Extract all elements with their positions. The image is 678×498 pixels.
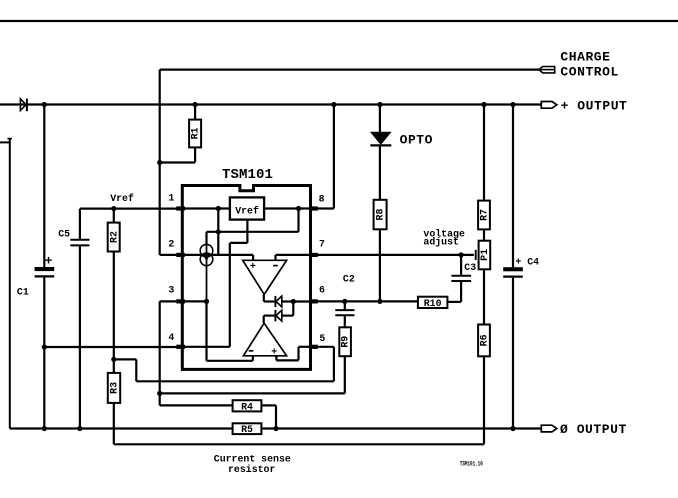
- junction: pin 3 node: [204, 299, 209, 304]
- pin 7 stub: [309, 253, 318, 257]
- wire: op-amp1 + input stub: [252, 255, 254, 260]
- wire: pin 5 long link: [136, 380, 334, 382]
- junction: rail / R1: [193, 102, 198, 107]
- svg-text:R6: R6: [479, 334, 490, 346]
- wire: + input rail: [0, 103, 542, 105]
- wire: op-amp2 output lead: [263, 316, 265, 324]
- capacitor C3: [451, 276, 471, 281]
- wire: current source top lead: [205, 232, 207, 245]
- svg-text:CONTROL: CONTROL: [560, 64, 618, 79]
- Vref box U1: [230, 197, 264, 219]
- junction: 0V / C1: [42, 426, 47, 431]
- svg-text:Vref: Vref: [235, 206, 259, 217]
- svg-text:R3: R3: [109, 382, 120, 394]
- wire: diode D3 riser: [292, 302, 294, 316]
- svg-text:resistor: resistor: [228, 464, 275, 475]
- junction: rail / opto branch: [377, 102, 382, 107]
- pin 3 stub: [176, 299, 185, 303]
- capacitor C2: [335, 310, 354, 315]
- resistor R6: [478, 325, 490, 357]
- wire: R2-R3 link: [113, 252, 115, 373]
- wire: R9 bottom lead: [344, 356, 346, 393]
- svg-text:Vref: Vref: [110, 193, 134, 204]
- wire: C4 bottom lead: [512, 278, 514, 429]
- wire: pin 5 lead: [317, 346, 334, 348]
- svg-text:R4: R4: [241, 401, 253, 412]
- wire: R8 bottom lead: [379, 229, 381, 301]
- junction: pin 3 riser / R9 return: [157, 391, 162, 396]
- junction: pin8 net branch: [296, 206, 301, 211]
- svg-text:C5: C5: [58, 228, 70, 239]
- wire: C3 top lead: [460, 255, 462, 275]
- resistor R7: [478, 201, 490, 230]
- wire: bias link row: [207, 231, 299, 233]
- wire: R1 top lead: [194, 104, 196, 120]
- wire: op-amp1 - input elbow up: [274, 255, 276, 260]
- wire: R9 return line: [160, 392, 345, 394]
- svg-text:2: 2: [168, 238, 174, 249]
- svg-text:3: 3: [168, 285, 174, 296]
- capacitor C1 (electrolytic): [35, 267, 55, 276]
- wire: Vref net: [80, 208, 182, 210]
- svg-text:TSM101: TSM101: [222, 167, 273, 183]
- svg-text:R8: R8: [375, 209, 386, 221]
- wire: pin 8 riser to rail: [333, 105, 335, 209]
- wire: R4 drop to 0V: [275, 405, 277, 428]
- op-amp U1B (current loop): [243, 323, 286, 357]
- wire: pin 4 inner: [182, 346, 230, 348]
- wire: opto top lead: [379, 105, 381, 133]
- wire: pin 3 riser: [159, 301, 161, 405]
- wire: pin1-pin2 riser: [217, 209, 219, 255]
- connector: 0 OUTPUT spade: [541, 425, 557, 432]
- resistor R1: [189, 120, 201, 148]
- wire: opto to R8: [379, 145, 381, 199]
- wire: CHARGE CONTROL line: [160, 68, 540, 70]
- svg-text:1: 1: [168, 193, 174, 204]
- resistor R3: [108, 373, 120, 403]
- svg-text:R2: R2: [108, 231, 119, 243]
- wire: R1 bottom link: [160, 161, 195, 163]
- wire: left return stub from transformer: [0, 139, 12, 429]
- wire: pin 4 sense line: [44, 346, 176, 348]
- svg-text:+: +: [45, 254, 53, 269]
- junction: rail / C1 branch: [42, 102, 47, 107]
- wire: op-amp2 - input stub: [252, 356, 254, 361]
- junction: rail / R7: [481, 102, 486, 107]
- wire: kelvin sense return: [114, 443, 484, 445]
- wire: pin 7 voltage-adjust line: [317, 254, 474, 256]
- wire: current source to op-amp2: [205, 301, 207, 360]
- wire: R3 bottom lead: [113, 403, 115, 444]
- wire: sense tap link: [114, 358, 137, 360]
- wire: Vref bottom lead: [246, 220, 248, 243]
- wire: pin 2 lead: [160, 254, 177, 256]
- svg-text:C2: C2: [343, 273, 355, 284]
- junction: R4 / 0V rail: [273, 426, 278, 431]
- wire: pin 1 inner: [182, 207, 230, 209]
- resistor R5 (current sense): [233, 423, 262, 435]
- svg-text:8: 8: [319, 193, 325, 204]
- pin 5 stub: [309, 345, 318, 349]
- wire: R7 top lead: [483, 105, 485, 201]
- wire: C4 top lead: [512, 105, 514, 268]
- junction: rail / pin8 riser: [331, 102, 336, 107]
- junction: pin1 net branch: [216, 206, 221, 211]
- op-amp IC TSM101 outline with notch: [182, 186, 310, 370]
- junction: pin7 / C3: [459, 252, 464, 257]
- wire: C3 bottom lead: [460, 282, 462, 302]
- pin 1 stub: [176, 206, 185, 210]
- pin 4 stub: [176, 345, 185, 349]
- LED OPTO (optocoupler diode): [370, 132, 391, 145]
- current source symbol: [200, 244, 213, 301]
- wire: pin 5 drop: [333, 347, 335, 382]
- wire: P1 to R6: [483, 269, 485, 324]
- top border rule: [0, 20, 678, 22]
- svg-text:+ C4: + C4: [515, 256, 539, 267]
- wire: C5 bottom lead: [79, 246, 81, 428]
- svg-text:R1: R1: [190, 128, 201, 140]
- svg-text:adjust: adjust: [423, 236, 459, 247]
- wire: pin 3 lead: [160, 300, 177, 302]
- junction: 0V / C5: [77, 426, 82, 431]
- wire: pin 8 inner: [264, 207, 317, 209]
- junction: R2-R3 / pin5 sense tap: [111, 357, 116, 362]
- junction: pin6 / C2: [342, 299, 347, 304]
- wire: C1 top lead: [43, 105, 45, 268]
- svg-text:C1: C1: [17, 287, 29, 298]
- wire: diode D2 anode link: [282, 300, 311, 302]
- svg-text:+: +: [271, 346, 277, 357]
- wire: R4 left lead: [160, 404, 233, 406]
- svg-text:6: 6: [319, 285, 325, 296]
- wire: R7 to P1: [483, 229, 485, 240]
- wire: pin 3 inner: [182, 300, 206, 302]
- connector: CHARGE CONTROL tab: [539, 67, 555, 73]
- wire: C3 to R10: [447, 301, 461, 303]
- capacitor C5: [70, 240, 89, 246]
- connector: + OUTPUT spade: [541, 102, 557, 109]
- wire: Vref lead elbow: [230, 242, 248, 244]
- wire: R6 bottom lead: [483, 356, 485, 444]
- wire: C2 top lead: [344, 301, 346, 309]
- wire: op-amp2 out to diode: [264, 315, 276, 317]
- wire: pin 8 lead: [317, 207, 334, 209]
- wire: pin5 inner riser: [297, 347, 299, 361]
- diode D1 (input rectifier): [20, 99, 27, 112]
- wire: diode D3 anode link: [282, 315, 294, 317]
- wire: 0V rail right: [261, 427, 541, 429]
- wire: Vref lead to pin4 row: [229, 243, 231, 347]
- resistor R4: [233, 400, 262, 412]
- capacitor C4 (electrolytic): [503, 267, 523, 276]
- svg-text:R7: R7: [479, 209, 490, 221]
- wire: R4 right lead: [261, 404, 276, 406]
- wire: pin 7 inner: [276, 254, 318, 256]
- svg-text:+ OUTPUT: + OUTPUT: [561, 98, 628, 113]
- wire: pin 5 inner: [299, 346, 311, 348]
- wire: pin8 inner riser: [297, 209, 299, 232]
- wire: R1 bottom lead: [194, 147, 196, 162]
- pin 6 stub: [309, 299, 318, 303]
- wire: op-amp1 out to diode: [264, 300, 276, 302]
- svg-text:CHARGE: CHARGE: [560, 49, 610, 64]
- svg-text:OPTO: OPTO: [400, 132, 433, 147]
- svg-text:R10: R10: [424, 298, 442, 309]
- potentiometer P1: [476, 241, 491, 270]
- wire: op-amp1 output lead: [263, 294, 265, 301]
- resistor R2: [108, 223, 120, 252]
- svg-text:7: 7: [319, 238, 325, 249]
- svg-text:5: 5: [319, 333, 325, 344]
- wire: sense tap drop: [135, 359, 137, 381]
- svg-text:P1: P1: [479, 249, 490, 261]
- svg-text:+: +: [250, 261, 256, 272]
- wire: R2 top lead: [113, 209, 115, 223]
- svg-text:Ø OUTPUT: Ø OUTPUT: [560, 422, 627, 437]
- wire: pin 6 line: [317, 300, 418, 302]
- junction: 0V / C4: [510, 426, 515, 431]
- wire: C5 top lead: [79, 209, 81, 239]
- junction: bias link / pin1 riser: [216, 229, 221, 234]
- op-amp U1A (voltage loop): [243, 260, 287, 294]
- diode D3 (OR-ing, lower): [275, 310, 281, 321]
- svg-text:TSM101.10: TSM101.10: [460, 460, 483, 467]
- junction: C1 branch / pin 4 sense: [42, 344, 47, 349]
- junction: rail / C4: [510, 102, 515, 107]
- wire: charge-control riser to pin 2: [159, 70, 161, 255]
- pin 8 stub: [309, 206, 318, 210]
- resistor R10: [418, 297, 448, 309]
- svg-text:4: 4: [168, 332, 174, 343]
- svg-text:R9: R9: [340, 336, 351, 348]
- junction: R8 / pin6 net: [377, 299, 382, 304]
- junction: pin6 inner node: [291, 299, 296, 304]
- wire: 0V rail left: [10, 427, 233, 429]
- svg-text:Current sense: Current sense: [214, 453, 291, 464]
- junction: R1 bottom / charge line: [157, 160, 162, 165]
- wire: op-amp2 + input stub: [275, 356, 277, 361]
- wire: op-amp2 - input routing: [207, 360, 253, 362]
- resistor R8: [374, 200, 387, 230]
- wire: pin 2 inner: [182, 254, 253, 256]
- pin 2 stub: [176, 253, 185, 257]
- wire: C1 bottom lead: [43, 278, 45, 429]
- svg-text:R5: R5: [241, 424, 253, 435]
- resistor R9: [339, 327, 351, 356]
- svg-text:C3: C3: [464, 262, 476, 273]
- wire: op-amp2 + input routing: [276, 359, 298, 361]
- diode D2 (OR-ing, upper): [275, 296, 281, 307]
- junction: Vref net / R2: [111, 206, 116, 211]
- wire: C2 to R9: [344, 316, 346, 327]
